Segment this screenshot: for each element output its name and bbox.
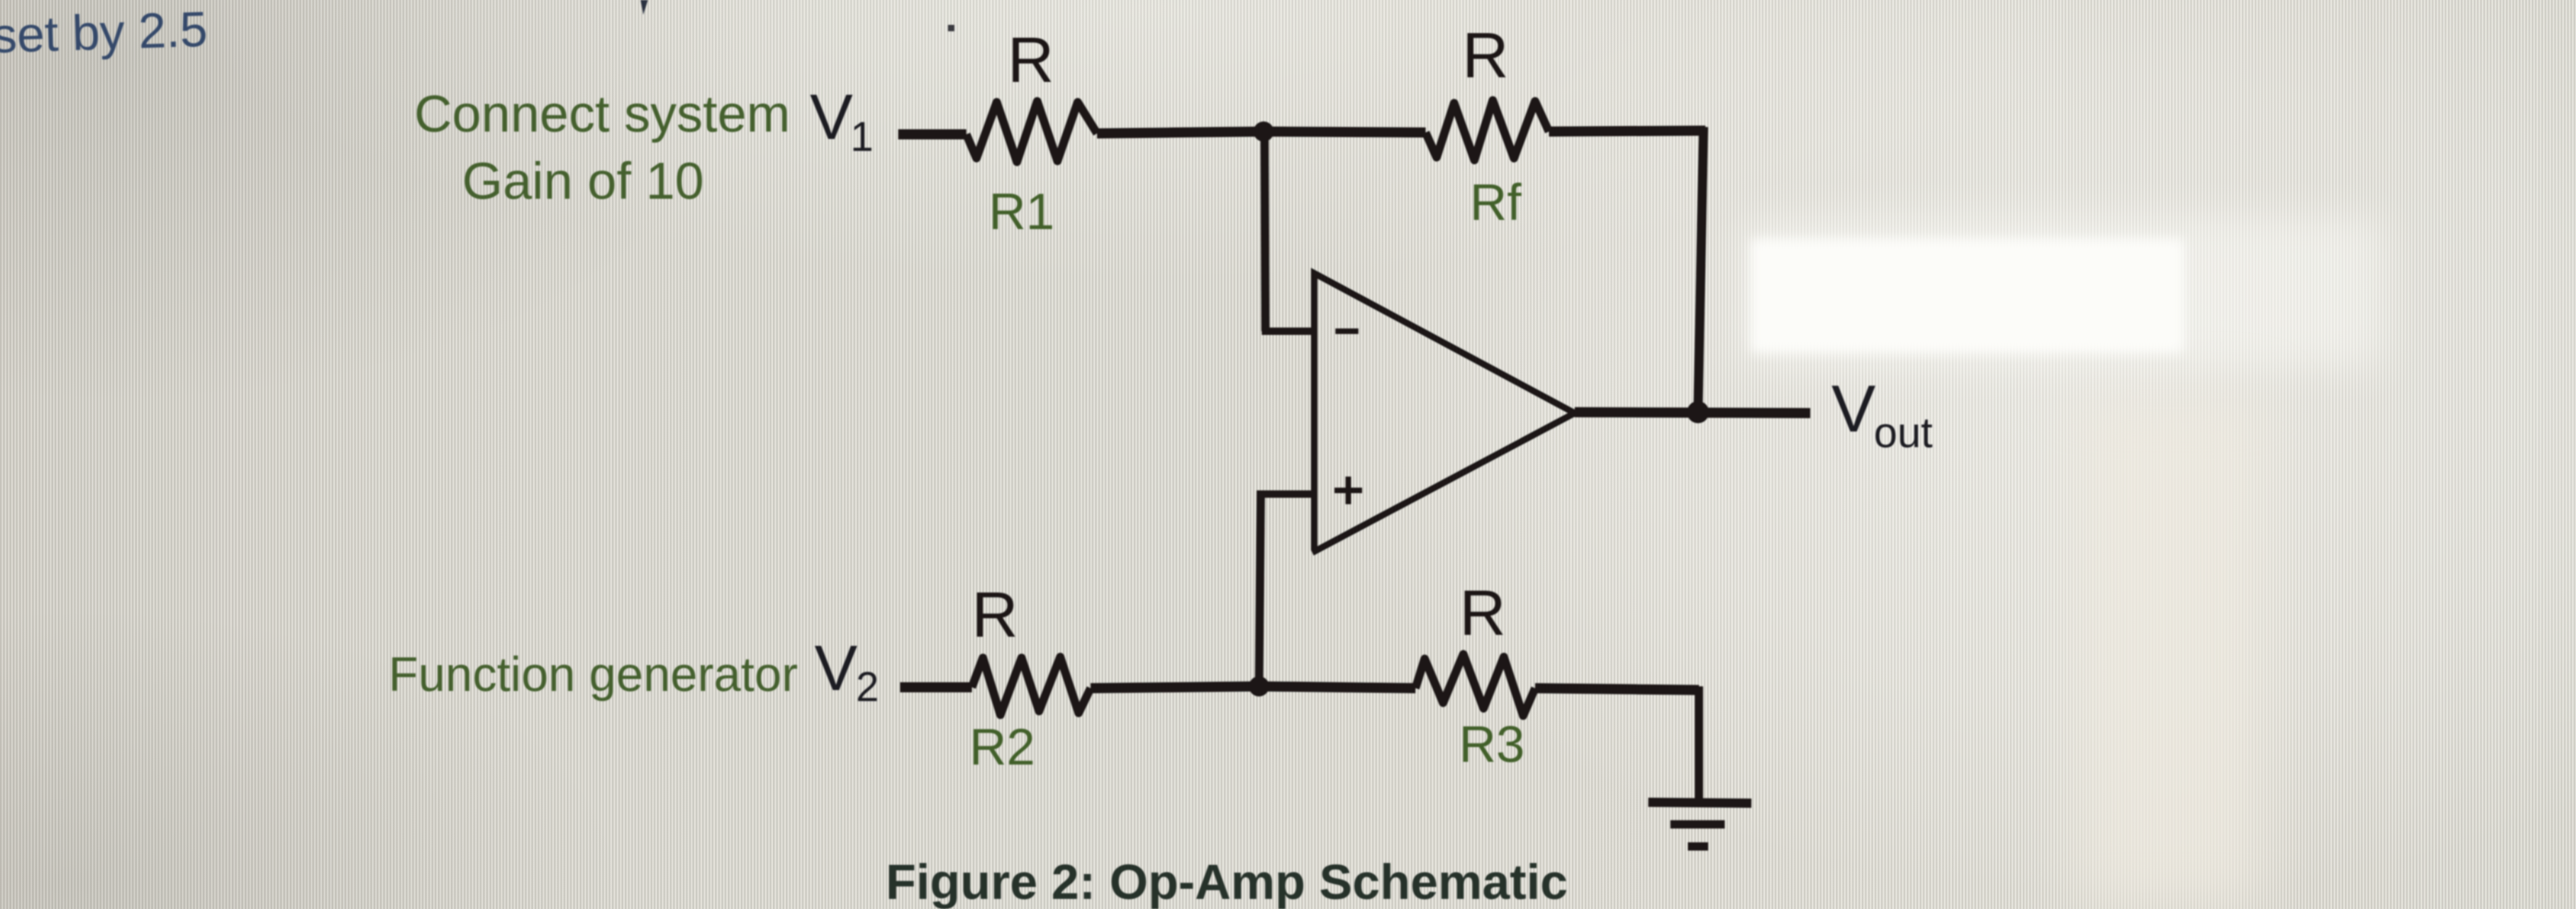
glare rectangle xyxy=(1750,238,2184,353)
resistor R3 xyxy=(1415,654,1535,716)
wire inverting input horizontal xyxy=(1262,328,1314,335)
wire feedback vertical xyxy=(1698,127,1704,412)
cut glyph top center xyxy=(641,0,648,15)
wire output xyxy=(1575,412,1810,413)
op-amp U1 xyxy=(1314,273,1575,551)
wire non-inverting vertical xyxy=(1259,490,1261,686)
resistor Rf xyxy=(1426,100,1549,160)
resistor R1 xyxy=(966,101,1097,162)
svg-text:Figure 2: Op-Amp Schematic: Figure 2: Op-Amp Schematic xyxy=(885,855,1567,909)
ground xyxy=(1648,802,1751,803)
svg-text:Connect system: Connect system xyxy=(414,85,791,144)
wire R3 to ground corner xyxy=(1535,688,1699,690)
svg-text:V: V xyxy=(1831,373,1876,446)
op-amp plus sign xyxy=(1334,477,1362,504)
svg-text:Gain of 10: Gain of 10 xyxy=(462,152,704,211)
wire node B to R3 xyxy=(1259,686,1415,688)
node B junction dot xyxy=(1249,676,1269,696)
wire node A to Rf xyxy=(1264,132,1426,132)
soft glare halo xyxy=(1739,216,2384,368)
svg-text:Rf: Rf xyxy=(1470,173,1521,231)
svg-text:set by 2.5: set by 2.5 xyxy=(0,2,208,63)
faint vertical reflection band right side xyxy=(2075,396,2264,909)
svg-text:R2: R2 xyxy=(969,718,1035,776)
wire Rf to corner xyxy=(1549,131,1705,132)
svg-text:R: R xyxy=(972,579,1019,650)
resistor R2 xyxy=(972,657,1091,715)
svg-text:R: R xyxy=(1462,19,1509,91)
svg-text:R: R xyxy=(1008,24,1055,96)
svg-text:V: V xyxy=(810,81,853,153)
wire V2 input to R2 xyxy=(900,683,972,693)
speck xyxy=(948,25,954,31)
wire inverting input vertical xyxy=(1265,132,1265,331)
node A junction dot xyxy=(1253,121,1274,142)
wire V1 input to R1 xyxy=(898,130,966,140)
wire R2 to node B xyxy=(1091,686,1259,688)
wire non-inverting horizontal xyxy=(1261,490,1314,498)
svg-text:V: V xyxy=(814,632,858,704)
wire R1 to node A xyxy=(1097,132,1264,133)
svg-text:R3: R3 xyxy=(1459,715,1525,773)
svg-text:2: 2 xyxy=(856,663,879,710)
svg-text:Function generator: Function generator xyxy=(388,648,798,702)
node output junction dot xyxy=(1687,401,1709,423)
svg-text:out: out xyxy=(1874,408,1933,456)
op-amp minus sign xyxy=(1335,328,1358,334)
svg-text:1: 1 xyxy=(850,113,873,160)
svg-text:R1: R1 xyxy=(988,182,1055,240)
wire ground stem xyxy=(1695,686,1704,802)
svg-text:R: R xyxy=(1460,577,1507,649)
